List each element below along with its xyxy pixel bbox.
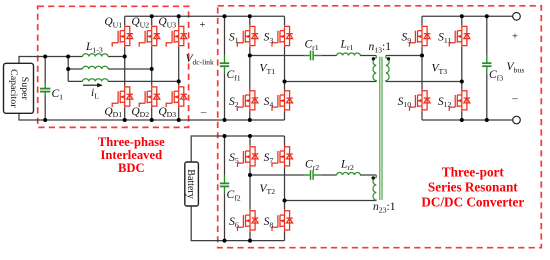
- svg-text:Cf2: Cf2: [227, 189, 241, 202]
- svg-text:Vbus: Vbus: [507, 61, 525, 74]
- svg-text:QD1: QD1: [104, 106, 122, 119]
- wire Vbus minus rail: [422, 119, 513, 121]
- svg-text:S11: S11: [438, 32, 451, 45]
- svg-text:n13:1: n13:1: [369, 41, 392, 54]
- transistor S3: [272, 25, 293, 47]
- svg-text:VT1: VT1: [260, 63, 276, 76]
- transistor S4: [272, 90, 293, 112]
- wire leg 1: [124, 16, 126, 120]
- junction leg3 bottom rail: [177, 118, 181, 122]
- junction Cf3 top rail: [485, 14, 489, 18]
- svg-text:QD2: QD2: [131, 106, 149, 119]
- transistor S9: [410, 25, 431, 47]
- transistor S5: [238, 146, 259, 168]
- wire secondary bottom: [386, 81, 462, 83]
- wire phase 3: [68, 80, 179, 82]
- junction Cf2 top rail: [223, 134, 227, 138]
- svg-text:S9: S9: [402, 32, 412, 45]
- wire leg S3 S4: [284, 16, 286, 120]
- polarity dot T2 primary: [372, 176, 375, 179]
- svg-text:Lr2: Lr2: [340, 159, 354, 172]
- junction S11 leg top rail: [460, 14, 464, 18]
- wire bridge2 upper output: [250, 174, 376, 176]
- terminal Vbus minus: [513, 116, 521, 124]
- transistor S8: [272, 210, 293, 232]
- svg-text:Lr1: Lr1: [340, 39, 354, 52]
- svg-text:L1-3: L1-3: [85, 41, 103, 54]
- wire phase 2: [68, 68, 152, 70]
- svg-text:S1: S1: [229, 32, 239, 45]
- junction leg1 bottom rail: [123, 118, 127, 122]
- svg-text:C1: C1: [52, 88, 64, 101]
- node bridge1 output B: [283, 80, 287, 84]
- wire leg S1 S2: [249, 16, 251, 120]
- inductor L2: [83, 66, 109, 69]
- wire Cf1 branch: [224, 16, 226, 120]
- transistor QU2: [139, 25, 160, 47]
- svg-text:QU2: QU2: [131, 16, 149, 29]
- svg-text:S4: S4: [264, 96, 274, 109]
- dashed box Three-phase Interleaved BDC: [38, 6, 189, 127]
- capacitor Cr1: [304, 51, 322, 61]
- transistor S11: [449, 25, 470, 47]
- svg-text:Interleaved: Interleaved: [101, 148, 163, 162]
- node bridge2 output A: [248, 173, 252, 177]
- transistor QD1: [112, 86, 133, 108]
- transistor S12: [449, 90, 470, 112]
- svg-text:QD3: QD3: [158, 106, 176, 119]
- dashed box Three-port Series Resonant DC/DC Converter: [218, 6, 542, 248]
- wire leg S7 S8: [284, 136, 286, 241]
- arrow iL: [83, 83, 103, 87]
- junction Cf2 bottom rail: [223, 239, 227, 243]
- svg-text:S3: S3: [264, 32, 274, 45]
- wire battery negative rail: [191, 206, 284, 241]
- box Super Capacitor: [4, 63, 34, 113]
- wire leg S5 S6: [249, 136, 251, 241]
- node bridge3 input B: [460, 80, 464, 84]
- wire C1 branch: [44, 57, 46, 121]
- svg-text:S6: S6: [229, 216, 239, 229]
- junction S1 leg top rail: [248, 14, 252, 18]
- node phase1 leg1: [123, 55, 127, 59]
- svg-text:+: +: [199, 20, 205, 31]
- junction Cf1 bottom rail: [223, 118, 227, 122]
- node bridge2 output B: [283, 199, 287, 203]
- inductor Lr1: [337, 53, 361, 56]
- caption Three-port Series Resonant DC/DC Converter: [421, 165, 524, 210]
- svg-text:iL: iL: [91, 87, 99, 100]
- wire Cf3 branch: [486, 16, 488, 120]
- transistor S7: [272, 146, 293, 168]
- capacitor Cr2: [304, 170, 322, 180]
- junction phase bus mid: [66, 67, 70, 71]
- inductor Lr2: [337, 173, 361, 176]
- svg-text:Three-phase: Three-phase: [98, 135, 165, 149]
- node phase2 leg2: [150, 67, 154, 71]
- transistor S1: [237, 25, 258, 47]
- svg-text:S8: S8: [264, 216, 274, 229]
- node bridge3 input A: [420, 54, 424, 58]
- capacitor Cf2: [220, 175, 229, 194]
- capacitor Cf1: [220, 55, 229, 74]
- wire bridge1 upper output: [250, 55, 376, 57]
- transistor QU1: [112, 25, 133, 47]
- transformer T1 primary winding: [373, 56, 376, 82]
- wire supercap positive: [19, 57, 68, 64]
- junction leg2 top rail: [150, 14, 154, 18]
- node bridge1 output A: [248, 54, 252, 58]
- transistor QD2: [139, 86, 160, 108]
- wire bridge1 lower output: [285, 81, 377, 83]
- box Battery: [185, 162, 199, 206]
- polarity dot T1 primary: [372, 57, 375, 60]
- svg-text:Vdc-link: Vdc-link: [186, 53, 215, 66]
- junction S12 leg bottom rail: [460, 118, 464, 122]
- junction phase bus top: [66, 55, 70, 59]
- svg-text:Cr2: Cr2: [305, 159, 319, 172]
- wire Cf2 branch: [224, 136, 226, 241]
- svg-text:n23:1: n23:1: [373, 201, 396, 214]
- junction leg3 top rail: [177, 14, 181, 18]
- svg-text:Cr1: Cr1: [305, 39, 319, 52]
- svg-text:BDC: BDC: [118, 161, 145, 175]
- junction C1 top: [43, 55, 47, 59]
- svg-text:DC/DC Converter: DC/DC Converter: [421, 194, 524, 209]
- svg-text:Cf3: Cf3: [489, 69, 503, 82]
- svg-text:Three-port: Three-port: [442, 165, 505, 180]
- svg-text:S7: S7: [264, 152, 274, 165]
- terminal Vbus plus: [513, 12, 521, 20]
- wire dc-link plus rail: [125, 15, 285, 17]
- inductor L1: [83, 54, 109, 57]
- svg-text:–: –: [200, 106, 207, 118]
- polarity dot secondary: [387, 57, 390, 60]
- junction Cf3 bottom rail: [485, 118, 489, 122]
- junction leg2 bottom rail: [150, 118, 154, 122]
- capacitor Cf3: [482, 55, 491, 74]
- svg-text:VT2: VT2: [260, 183, 276, 196]
- svg-text:Cf1: Cf1: [227, 69, 241, 82]
- svg-text:QU3: QU3: [158, 16, 176, 29]
- wire battery positive rail: [191, 136, 284, 162]
- wire leg S11 S12: [461, 16, 463, 120]
- transistor QU3: [166, 25, 187, 47]
- svg-text:S5: S5: [229, 152, 239, 165]
- wire leg 2: [151, 16, 153, 120]
- svg-text:+: +: [512, 31, 518, 42]
- capacitor C1: [40, 83, 50, 97]
- junction S2 leg bottom rail: [248, 118, 252, 122]
- svg-text:Series Resonant: Series Resonant: [428, 180, 518, 195]
- svg-text:Battery: Battery: [185, 169, 196, 198]
- wire dc-link minus rail: [19, 113, 285, 120]
- transformer core: [380, 57, 382, 200]
- wire phase 1: [68, 56, 125, 58]
- wire secondary top: [386, 55, 422, 57]
- transformer T2 primary winding: [373, 175, 376, 201]
- transistor S10: [410, 90, 431, 112]
- transistor S2: [237, 90, 258, 112]
- inductor L3: [83, 79, 109, 82]
- wire phase bus: [67, 57, 69, 82]
- junction S6 leg bottom rail: [248, 239, 252, 243]
- junction Cf1 top rail: [223, 14, 227, 18]
- junction C1 bottom rail: [43, 118, 47, 122]
- svg-text:S10: S10: [398, 96, 412, 109]
- wire leg 3: [178, 16, 180, 120]
- svg-text:S2: S2: [229, 96, 239, 109]
- svg-text:QU1: QU1: [104, 16, 122, 29]
- node phase3 leg3: [177, 79, 181, 83]
- caption Three-phase Interleaved BDC: [98, 135, 165, 175]
- svg-text:–: –: [511, 93, 518, 105]
- wire leg S9 S10: [421, 16, 423, 120]
- wire Vbus plus rail: [422, 15, 513, 17]
- transistor QD3: [166, 86, 187, 108]
- transistor S6: [238, 210, 259, 232]
- svg-text:VT3: VT3: [432, 63, 448, 76]
- transformer secondary winding: [386, 56, 389, 82]
- svg-text:S12: S12: [438, 96, 452, 109]
- wire bridge2 lower output: [285, 200, 377, 202]
- junction S5 leg top rail: [248, 134, 252, 138]
